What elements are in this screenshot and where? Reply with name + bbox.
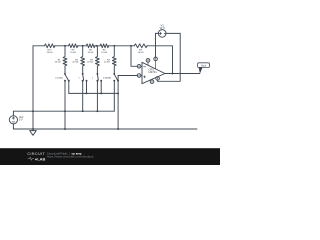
junction SW1 throw A xyxy=(64,80,66,82)
label V1 xyxy=(159,23,165,30)
op-amp pin 7 circle xyxy=(154,57,158,61)
footer logo CIRCUIT xyxy=(27,152,45,161)
svg-text:●LAB: ●LAB xyxy=(35,156,46,161)
label SW2 state xyxy=(78,78,80,80)
junction SW2 throw A on bus B xyxy=(82,110,84,112)
junction node N3 on top rail xyxy=(96,45,98,47)
ground xyxy=(30,129,37,135)
junction op-amp noninverting net on bottom rail xyxy=(117,128,119,130)
switch SW1 blade xyxy=(65,74,68,80)
junction node N2 on top rail xyxy=(82,45,84,47)
resistor R9 xyxy=(69,44,78,48)
junction node N4 on top rail xyxy=(113,45,115,47)
node dots group xyxy=(32,45,173,130)
junction SW1 common xyxy=(64,73,66,75)
resistor R8 feedback xyxy=(134,44,147,48)
junction SW4 common xyxy=(113,73,115,75)
junction SW2 throw A xyxy=(82,80,84,82)
junction SW3 throw B xyxy=(100,80,102,82)
wire V1 minus down and left to pin4 xyxy=(158,33,181,81)
wire op-amp output xyxy=(165,73,200,75)
resistor R1 vertical xyxy=(63,46,67,74)
junction feedback to output xyxy=(172,73,174,75)
label R5 value xyxy=(101,50,107,54)
label R10 value xyxy=(47,50,53,54)
label R2 value xyxy=(72,59,79,63)
wire bus A ground bus xyxy=(69,92,118,94)
svg-text:0 (LSB): 0 (LSB) xyxy=(55,78,63,80)
voltage source Vref xyxy=(9,111,17,129)
label SW4 state xyxy=(103,78,111,80)
op-amp pin 5 circle xyxy=(146,59,150,63)
junction left wire on bus B xyxy=(32,110,34,112)
junction SW1 throw A on bus B xyxy=(64,110,66,112)
op-amp pin stubs xyxy=(141,60,158,81)
wire SW4 right throw / op-amp +in vertical xyxy=(117,76,119,130)
label R4 value xyxy=(104,59,111,63)
svg-text:CIRCUIT: CIRCUIT xyxy=(27,152,45,156)
op-amp OP1 triangle xyxy=(142,62,165,83)
junction bus A right end xyxy=(117,92,119,94)
switch SW2 blade xyxy=(82,74,85,80)
label SW1 state xyxy=(55,78,63,80)
wire V1 plus down to pin7 xyxy=(155,33,157,57)
label R9 value xyxy=(70,50,76,54)
op-amp pin 1 circle xyxy=(156,77,160,81)
junction SW3 throw A xyxy=(96,80,98,82)
svg-text:5 V: 5 V xyxy=(19,119,23,122)
footer bar xyxy=(0,148,220,165)
junction SW3 throw B on bus A xyxy=(100,92,102,94)
svg-text:10 kΩ: 10 kΩ xyxy=(70,52,76,54)
switch SW3 blade xyxy=(96,74,99,80)
output flag Vout xyxy=(198,63,210,74)
junction SW2 throw B xyxy=(86,80,88,82)
wire bottom rail xyxy=(13,128,197,130)
junction SW3 throw A on bus B xyxy=(96,110,98,112)
svg-text:20 kΩ: 20 kΩ xyxy=(72,62,78,64)
voltage source V1 xyxy=(156,30,181,38)
op-amp pin 4 circle xyxy=(150,80,154,84)
label SW3 state xyxy=(92,78,94,80)
label OP1 xyxy=(149,68,158,75)
wire SW1 left throw down to bottom rail xyxy=(64,81,66,129)
svg-text:20 kΩ: 20 kΩ xyxy=(47,52,53,54)
junction top rail to op-amp inverting input xyxy=(130,45,132,47)
junction SW4 throw B xyxy=(117,80,119,82)
junction SW1 throw A on bottom rail xyxy=(64,128,66,130)
resistor R3 vertical xyxy=(96,46,100,74)
junction SW2 common xyxy=(82,73,84,75)
op-amp pin 2 circle xyxy=(137,65,141,69)
wire left vertical from top rail to ground xyxy=(32,46,34,129)
wire inverting input from rail xyxy=(131,46,138,67)
junction SW2 throw B on bus A xyxy=(86,92,88,94)
svg-text:0 (MSB): 0 (MSB) xyxy=(103,78,111,80)
resistor R6 xyxy=(86,44,95,48)
junction SW1 throw B xyxy=(68,80,70,82)
pin number smudges xyxy=(139,58,159,83)
junction ground node xyxy=(32,128,34,130)
wire feedback right vertical to output xyxy=(172,46,174,74)
wire SW4 left throw down to bus B end xyxy=(113,81,115,112)
resistor R4 vertical xyxy=(112,46,116,74)
wire SW3 right throw down to bus A xyxy=(100,81,102,94)
wire SW2 left throw down to bus B xyxy=(82,81,84,112)
resistor R2 vertical xyxy=(81,46,85,74)
label R8 value xyxy=(138,50,144,54)
svg-text:https://www.circuitlab.com/c6p: https://www.circuitlab.com/c6pdqya xyxy=(47,155,94,159)
svg-text:10 kΩ: 10 kΩ xyxy=(138,52,144,54)
footer text line 2 xyxy=(47,155,94,159)
wire bus B Vref bus xyxy=(13,110,114,112)
label R6 value xyxy=(88,50,94,54)
svg-text:20 kΩ: 20 kΩ xyxy=(87,62,93,64)
op-amp input polarity marks xyxy=(144,67,146,78)
label R3 value xyxy=(87,59,94,63)
wire SW1 right throw down to bus A xyxy=(68,81,70,94)
junction SW3 common xyxy=(96,73,98,75)
junction SW4 throw A xyxy=(113,80,115,82)
switch SW4 blade xyxy=(114,74,117,80)
svg-text:20 kΩ: 20 kΩ xyxy=(104,62,110,64)
label R1 value xyxy=(55,59,62,63)
svg-text:10 kΩ: 10 kΩ xyxy=(101,52,107,54)
resistor R10 xyxy=(45,44,56,48)
label Vref xyxy=(19,116,24,121)
wire SW3 left throw down to bus B xyxy=(96,81,98,112)
op-amp pin 3 circle xyxy=(137,74,141,78)
junction node N1 on top rail xyxy=(64,45,66,47)
wire op-amp +in to x118 vertical xyxy=(118,75,138,77)
wire SW2 right throw down to bus A xyxy=(86,81,88,94)
labels xyxy=(19,23,165,121)
footer text line 1 xyxy=(47,152,82,156)
wire top rail segments xyxy=(33,45,173,47)
resistor R5 xyxy=(100,44,109,48)
svg-text:10 kΩ: 10 kΩ xyxy=(88,52,94,54)
svg-text:20 kΩ: 20 kΩ xyxy=(55,62,61,64)
